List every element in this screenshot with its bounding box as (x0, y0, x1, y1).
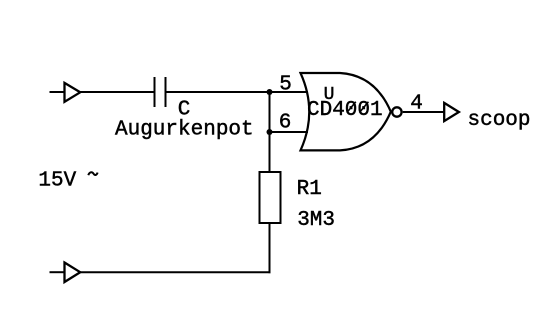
junction dot pin 6 node (267, 129, 273, 135)
svg-text:Augurkenpot: Augurkenpot (115, 119, 254, 142)
wire vertical junction to resistor (269, 92, 271, 172)
slash of first zero (347, 102, 356, 113)
wire pin 4 output (403, 111, 444, 113)
wire input stub bottom (50, 271, 65, 273)
wire input stub top (50, 91, 65, 93)
connector arrow bottom input (65, 263, 81, 283)
connector arrow output (444, 103, 459, 121)
capacitor C left plate (154, 77, 156, 107)
output inversion bubble (392, 107, 401, 116)
svg-text:6: 6 (279, 112, 292, 135)
wire resistor to bottom rail (269, 223, 271, 273)
label ~ (AC symbol) (88, 172, 97, 175)
nor gate U body CD4001 (301, 73, 391, 150)
svg-text:scoop: scoop (468, 109, 531, 132)
svg-text:5: 5 (279, 73, 292, 96)
resistor R1 body (260, 172, 281, 223)
svg-text:R1: R1 (297, 178, 322, 201)
wire bottom rail (80, 271, 271, 273)
wire from top arrow to capacitor (80, 91, 154, 93)
svg-text:15V: 15V (38, 170, 76, 193)
slash of second zero (359, 102, 368, 113)
connector arrow top input (65, 83, 81, 102)
capacitor C right plate (165, 77, 167, 107)
wire pin 6 (270, 131, 309, 133)
svg-text:4: 4 (410, 92, 423, 115)
svg-text:3M3: 3M3 (297, 209, 335, 232)
wire capacitor to gate pin 5 (167, 91, 309, 93)
junction dot pin 5 node (267, 89, 273, 95)
svg-text:CD4001: CD4001 (307, 99, 383, 122)
